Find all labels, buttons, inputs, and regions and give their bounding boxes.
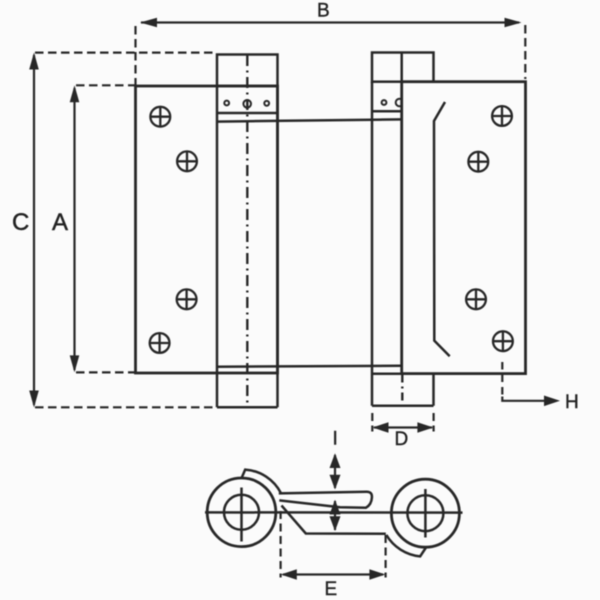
svg-text:H: H: [565, 392, 579, 413]
svg-text:I: I: [333, 429, 338, 450]
svg-text:C: C: [12, 209, 29, 236]
svg-text:D: D: [395, 429, 409, 450]
svg-text:A: A: [52, 209, 68, 236]
svg-text:B: B: [317, 1, 330, 22]
svg-text:E: E: [325, 579, 338, 600]
